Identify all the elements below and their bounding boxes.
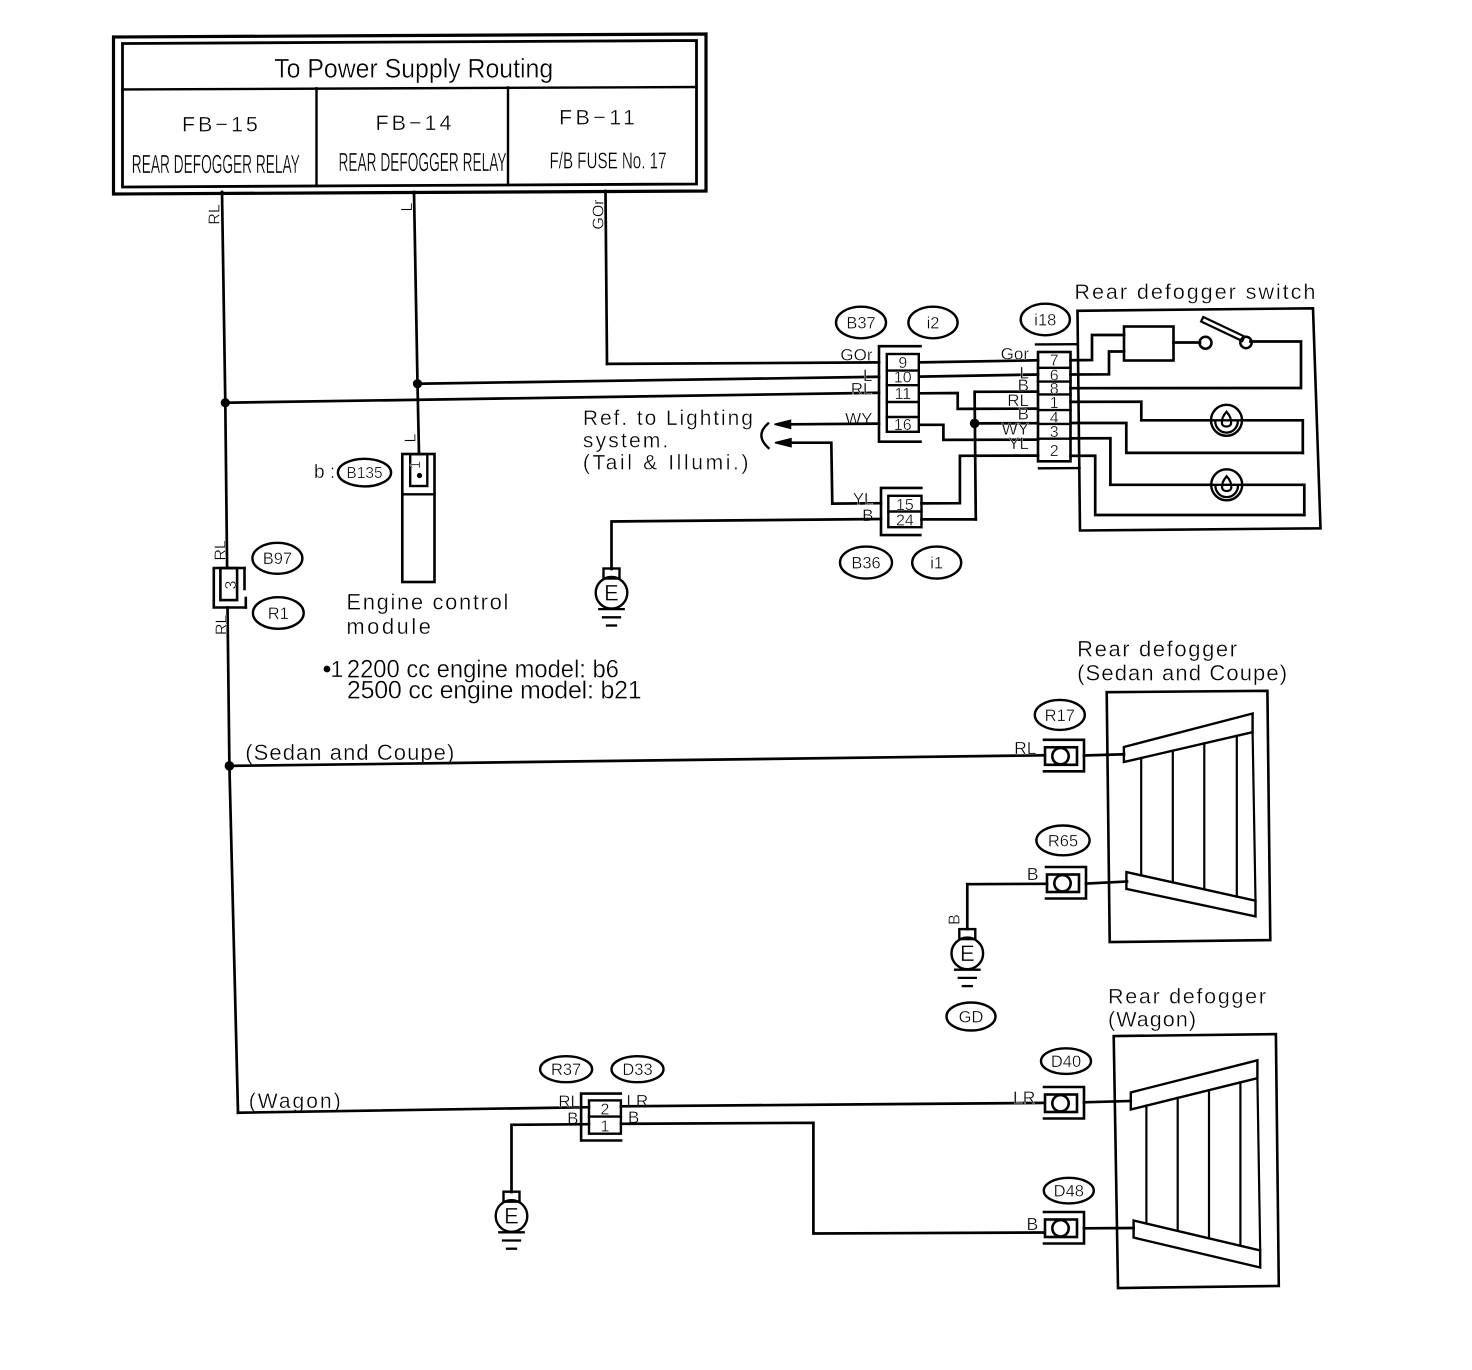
svg-text:D33: D33 (622, 1061, 652, 1079)
svg-text:i18: i18 (1034, 311, 1056, 329)
svg-text:Rear defogger: Rear defogger (1108, 985, 1266, 1009)
svg-text:FB−14: FB−14 (376, 111, 452, 135)
svg-text:R1: R1 (268, 605, 289, 623)
svg-text:To Power Supply Routing: To Power Supply Routing (274, 54, 553, 84)
svg-text:GOr: GOr (591, 199, 608, 230)
svg-text:Engine control: Engine control (346, 590, 508, 615)
svg-text:R65: R65 (1048, 832, 1078, 850)
svg-text:B37: B37 (846, 314, 875, 332)
svg-text:module: module (346, 614, 431, 639)
svg-text:Gor: Gor (1001, 345, 1030, 364)
svg-text:1: 1 (331, 656, 344, 682)
svg-text:GOr: GOr (840, 346, 872, 365)
svg-text:10: 10 (894, 370, 912, 387)
svg-text:D40: D40 (1051, 1053, 1081, 1071)
svg-text:1: 1 (601, 1118, 610, 1135)
svg-text:Rear defogger: Rear defogger (1077, 636, 1237, 661)
svg-text:B: B (946, 914, 963, 925)
svg-text:i2: i2 (927, 314, 940, 332)
svg-text:YL: YL (1008, 434, 1029, 453)
svg-text:2: 2 (1050, 443, 1059, 460)
svg-text:REAR DEFOGGER RELAY: REAR DEFOGGER RELAY (339, 149, 507, 177)
svg-text:B: B (862, 506, 873, 525)
svg-text:D48: D48 (1054, 1183, 1084, 1201)
svg-text:(Wagon): (Wagon) (1108, 1008, 1196, 1032)
svg-text:2500 cc engine model: b21: 2500 cc engine model: b21 (347, 677, 642, 705)
svg-text:(Wagon): (Wagon) (249, 1090, 341, 1113)
svg-text:LR: LR (1013, 1088, 1035, 1108)
svg-text:(Sedan and Coupe): (Sedan and Coupe) (245, 740, 454, 765)
svg-text:3: 3 (223, 580, 240, 589)
svg-text:E: E (604, 580, 619, 605)
svg-text:(Sedan and Coupe): (Sedan and Coupe) (1077, 661, 1287, 686)
svg-text:E: E (504, 1204, 519, 1229)
svg-text:RL: RL (214, 615, 231, 636)
svg-text:3: 3 (1050, 424, 1059, 441)
svg-text:REAR DEFOGGER RELAY: REAR DEFOGGER RELAY (132, 151, 300, 179)
svg-text:FB−15: FB−15 (182, 112, 258, 136)
svg-text:11: 11 (894, 386, 911, 403)
svg-text:GD: GD (959, 1008, 984, 1026)
svg-text:Rear defogger switch: Rear defogger switch (1074, 279, 1315, 304)
svg-text:F/B FUSE No. 17: F/B FUSE No. 17 (550, 147, 667, 173)
svg-text:2: 2 (601, 1101, 610, 1118)
svg-text:RL: RL (1014, 738, 1037, 758)
svg-text:RL: RL (207, 204, 224, 225)
svg-text:(Tail & Illumi.): (Tail & Illumi.) (583, 451, 749, 474)
svg-text:i1: i1 (930, 555, 943, 573)
svg-text:B: B (1027, 864, 1039, 884)
svg-text:E: E (960, 941, 975, 966)
svg-text:R37: R37 (551, 1061, 581, 1079)
svg-text:1: 1 (407, 461, 424, 469)
svg-text:R17: R17 (1045, 707, 1075, 725)
svg-text:16: 16 (894, 417, 912, 434)
svg-text:B135: B135 (346, 465, 382, 482)
svg-text:Ref. to Lighting: Ref. to Lighting (583, 407, 753, 430)
svg-text:FB−11: FB−11 (559, 106, 635, 130)
svg-text:L: L (399, 202, 416, 211)
svg-text:b :: b : (314, 462, 335, 483)
svg-text:RL: RL (851, 380, 873, 399)
svg-text:WY: WY (845, 410, 872, 429)
svg-text:B: B (1027, 1214, 1039, 1234)
svg-text:B36: B36 (851, 555, 880, 573)
svg-text:B97: B97 (263, 550, 292, 568)
svg-text:RL: RL (213, 540, 230, 561)
svg-text:15: 15 (896, 497, 914, 514)
svg-text:system.: system. (583, 429, 669, 452)
svg-text:L: L (403, 433, 420, 442)
svg-text:24: 24 (896, 512, 914, 529)
